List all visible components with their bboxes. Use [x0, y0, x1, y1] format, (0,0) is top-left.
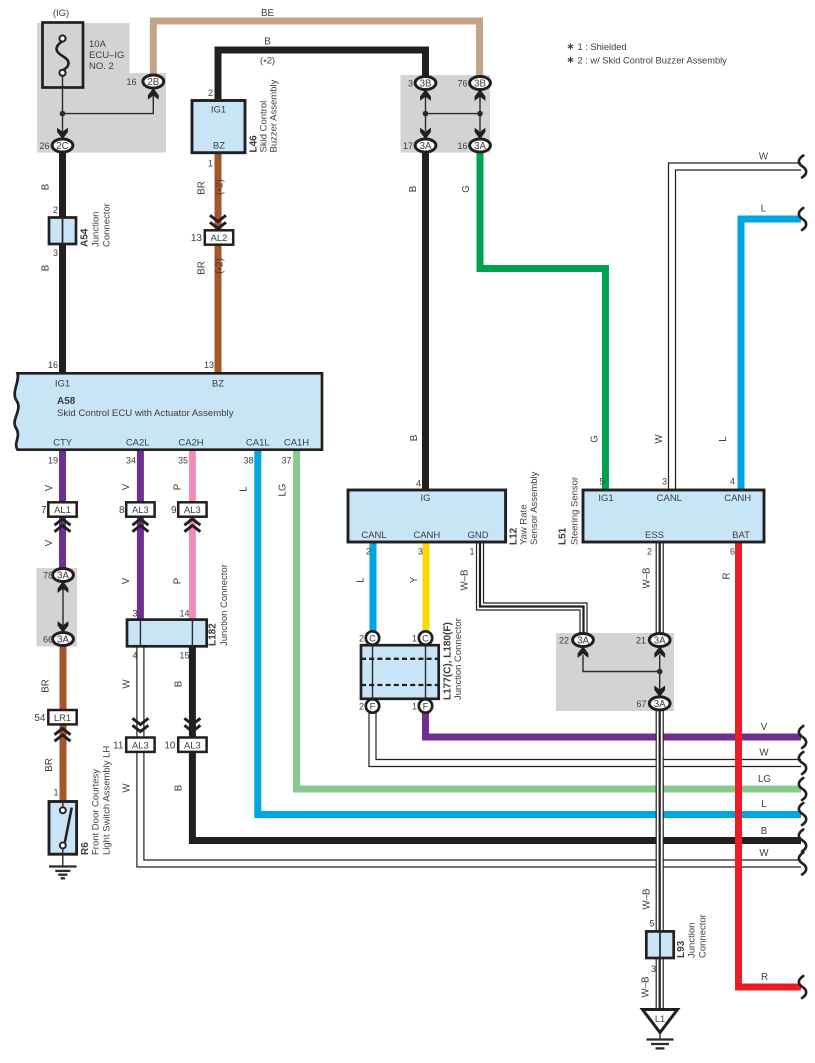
wire W-B L51 ESS to 21 3A: [656, 541, 664, 635]
fuse element symbol: [57, 35, 69, 76]
chevron arrows below AL3 pin9: [184, 519, 200, 532]
connector oval 3 3B: [415, 77, 436, 90]
svg-text:3A: 3A: [577, 635, 589, 646]
svg-text:2: 2: [366, 547, 371, 557]
svg-text:66: 66: [43, 635, 53, 645]
svg-text:IG1: IG1: [598, 493, 613, 504]
svg-text:37: 37: [281, 456, 291, 466]
svg-text:6: 6: [730, 547, 735, 557]
svg-text:LG: LG: [758, 774, 771, 785]
svg-text:3A: 3A: [57, 570, 69, 581]
break symbol LG: [799, 778, 806, 800]
svg-text:W: W: [654, 434, 665, 444]
wire BE fuse 2B to 76 3B: [153, 21, 479, 76]
svg-text:P: P: [173, 578, 184, 584]
connector AL3 pin 11: [113, 738, 154, 752]
svg-text:L: L: [239, 486, 250, 492]
arrow into 78 3A: [58, 581, 69, 593]
svg-text:34: 34: [126, 456, 136, 466]
svg-text:CANL: CANL: [657, 493, 682, 504]
svg-text:10A: 10A: [89, 39, 107, 50]
svg-text:3B: 3B: [474, 78, 486, 89]
svg-text:4: 4: [416, 479, 421, 489]
chevron arrows below LR1: [55, 729, 71, 742]
svg-text:1: 1: [412, 634, 417, 644]
chevron arrows above AL2: [210, 215, 226, 228]
svg-text:2: 2: [647, 547, 652, 557]
svg-text:AL1: AL1: [54, 504, 71, 515]
svg-text:BAT: BAT: [732, 530, 750, 541]
connector oval 21 3A: [649, 634, 670, 647]
svg-text:(*2): (*2): [215, 258, 228, 274]
wire G 16 3A to L51 IG1: [480, 150, 606, 490]
wire W L182 via AL3 to right edge: [140, 645, 801, 864]
svg-text:4: 4: [730, 477, 735, 487]
wire B 17 3A to L12 IG: [422, 150, 429, 490]
break symbol L: [799, 803, 806, 825]
svg-text:16: 16: [48, 360, 58, 370]
svg-text:AL3: AL3: [132, 739, 149, 750]
svg-text:(IG): (IG): [53, 8, 69, 19]
break symbol V: [799, 726, 806, 748]
connector oval 17 3A: [415, 139, 436, 152]
svg-text:R: R: [722, 573, 733, 580]
svg-text:BZ: BZ: [213, 141, 225, 152]
svg-text:3: 3: [132, 609, 137, 619]
fuse box ECU-IG NO.2: [43, 23, 84, 88]
connector oval 26 2C: [52, 139, 73, 152]
connector circle 2 F: [366, 699, 379, 712]
shield ground triangle L1: [643, 1010, 678, 1033]
shaded area fuse block: [37, 23, 166, 153]
svg-text:13: 13: [204, 360, 214, 370]
svg-text:3A: 3A: [654, 635, 666, 646]
shaded area connector 3A right: [556, 633, 674, 711]
svg-text:Junction: Junction: [687, 923, 698, 958]
wire W L51 CANL to right edge: [672, 167, 801, 492]
wire BR 66 3A to R6: [60, 644, 67, 802]
wire Y L12 CANH to 1 C: [423, 541, 430, 635]
svg-text:AL3: AL3: [184, 504, 201, 515]
junction dot fuse branch: [60, 111, 66, 117]
svg-text:22: 22: [559, 636, 569, 646]
svg-text:L51: L51: [558, 527, 569, 545]
svg-text:16: 16: [457, 141, 467, 151]
break symbol W top: [799, 156, 806, 178]
svg-text:W: W: [122, 783, 133, 793]
connector oval 22 3A: [573, 634, 594, 647]
svg-text:Junction Connector: Junction Connector: [219, 564, 230, 646]
svg-text:67: 67: [636, 699, 646, 709]
box R6 front door courtesy light switch: [49, 802, 77, 855]
connector AL3 pin 10: [164, 738, 206, 752]
svg-text:L: L: [761, 799, 767, 810]
svg-text:1: 1: [412, 702, 417, 712]
svg-text:B: B: [409, 435, 420, 441]
svg-text:1 : Shielded: 1 : Shielded: [578, 42, 627, 52]
svg-text:3A: 3A: [474, 141, 486, 152]
svg-text:BE: BE: [261, 8, 274, 19]
svg-text:2B: 2B: [147, 77, 159, 88]
chevron arrows above AL3 pin10: [184, 718, 200, 731]
svg-text:L177(C), L180(F): L177(C), L180(F): [443, 622, 454, 700]
connector AL2: [191, 230, 233, 244]
chevron arrows below AL1: [55, 519, 71, 532]
break symbol W mid: [799, 752, 806, 774]
junction dot 3B-3A right: [477, 111, 483, 117]
break symbol W bottom: [799, 853, 806, 875]
svg-text:F: F: [423, 701, 429, 711]
wire BR L46 BZ to A58 BZ: [215, 154, 222, 372]
wire V 1 F to right edge: [426, 709, 802, 737]
svg-text:54: 54: [34, 713, 46, 724]
svg-text:2: 2: [208, 88, 213, 98]
note star 1: [568, 43, 573, 49]
svg-text:BR: BR: [44, 758, 55, 771]
svg-text:W: W: [759, 848, 769, 859]
arrow into 22 3A: [578, 646, 589, 658]
connector AL3 pin 8: [119, 502, 155, 516]
svg-text:3A: 3A: [420, 141, 432, 152]
svg-text:CA1H: CA1H: [284, 438, 309, 449]
wire fuse branch to 2B: [63, 93, 154, 114]
box L177/L180 junction connector: [361, 645, 439, 699]
svg-text:A54: A54: [80, 228, 91, 247]
svg-text:2 : w/ Skid Control Buzzer Ass: 2 : w/ Skid Control Buzzer Assembly: [578, 56, 728, 66]
wire W-B 67 3A to L1 ground: [656, 708, 664, 1010]
break symbol L top: [799, 208, 806, 230]
svg-text:Steering Sensor: Steering Sensor: [570, 477, 581, 545]
svg-text:L93: L93: [676, 940, 687, 958]
connector oval 66 3A: [53, 633, 74, 646]
svg-text:B: B: [408, 186, 419, 192]
box L12 yaw rate sensor assembly: [348, 490, 506, 542]
svg-text:78: 78: [43, 571, 53, 581]
svg-text:1: 1: [53, 788, 58, 798]
svg-text:R: R: [761, 972, 768, 983]
svg-text:BR: BR: [197, 181, 208, 194]
svg-text:BZ: BZ: [212, 379, 224, 390]
connector circle 1 C: [419, 631, 432, 644]
box L182 junction connector: [127, 620, 207, 647]
svg-text:CA1L: CA1L: [246, 438, 270, 449]
svg-text:17: 17: [403, 141, 413, 151]
svg-text:7: 7: [41, 505, 47, 516]
svg-text:35: 35: [178, 456, 188, 466]
svg-text:L1: L1: [655, 1014, 665, 1024]
connector oval 67 3A: [649, 697, 670, 710]
wire V A58 CA2L to L182: [137, 450, 144, 620]
svg-text:2C: 2C: [56, 141, 68, 152]
svg-text:CANL: CANL: [361, 530, 386, 541]
svg-text:21: 21: [636, 636, 646, 646]
svg-text:AL3: AL3: [132, 504, 149, 515]
svg-text:CA2L: CA2L: [126, 438, 150, 449]
svg-text:GND: GND: [467, 530, 488, 541]
wire 3B-3A right: [479, 96, 481, 131]
svg-text:G: G: [461, 185, 472, 193]
chevron arrows above AL3 pin11: [132, 718, 148, 731]
svg-text:R6: R6: [80, 842, 91, 855]
svg-text:IG1: IG1: [55, 379, 70, 390]
svg-text:W–B: W–B: [642, 568, 653, 589]
svg-text:CANH: CANH: [413, 530, 440, 541]
box L51 steering sensor: [583, 490, 764, 542]
svg-text:Yaw Rate: Yaw Rate: [519, 505, 530, 545]
wire L L51 CANH to right edge: [741, 219, 801, 491]
svg-text:B: B: [264, 37, 270, 48]
svg-text:BR: BR: [197, 261, 208, 274]
wire 78-66 3A: [62, 588, 64, 630]
svg-text:2: 2: [359, 634, 364, 644]
arrow into 17 3A: [420, 128, 431, 140]
svg-text:B: B: [174, 681, 185, 687]
svg-text:IG1: IG1: [211, 105, 226, 116]
svg-text:AL3: AL3: [184, 739, 201, 750]
svg-text:ESS: ESS: [645, 530, 664, 541]
svg-text:B: B: [41, 265, 52, 271]
svg-text:8: 8: [119, 505, 125, 516]
wire B L182 to right edge: [192, 647, 801, 841]
svg-text:Light Switch Assembly LH: Light Switch Assembly LH: [102, 746, 113, 855]
svg-text:AL2: AL2: [211, 232, 228, 243]
svg-text:15: 15: [179, 651, 189, 661]
svg-text:19: 19: [48, 456, 58, 466]
box A54 junction connector: [49, 218, 76, 245]
connector AL1: [41, 502, 77, 516]
svg-text:P: P: [173, 484, 184, 490]
break symbol B: [799, 830, 806, 852]
connector AL3 pin 9: [171, 502, 207, 516]
svg-text:B: B: [41, 184, 52, 190]
arrow into 67 3A: [654, 686, 665, 698]
svg-text:9: 9: [171, 505, 177, 516]
svg-text:3: 3: [53, 248, 58, 258]
arrow into 66 3A: [58, 621, 69, 633]
svg-text:L: L: [356, 577, 367, 583]
svg-text:Y: Y: [409, 576, 420, 583]
ground symbol R6: [49, 854, 77, 878]
svg-text:Junction: Junction: [91, 212, 102, 247]
svg-text:B: B: [174, 785, 185, 791]
wire 3B-3A crossbar: [426, 113, 481, 115]
box L46 skid control buzzer assembly: [192, 101, 245, 153]
svg-text:V: V: [761, 722, 768, 733]
wire V A58 CTY to 78 3A: [59, 450, 66, 571]
connector oval 16 2B: [143, 75, 164, 88]
svg-text:10: 10: [164, 740, 176, 751]
connector oval 16 3A: [470, 139, 491, 152]
svg-text:5: 5: [649, 919, 654, 929]
svg-text:2: 2: [53, 205, 58, 215]
svg-text:Skid Control ECU with Actuator: Skid Control ECU with Actuator Assembly: [57, 408, 234, 419]
svg-text:Connector: Connector: [102, 203, 113, 247]
svg-text:CANH: CANH: [724, 493, 751, 504]
svg-text:LR1: LR1: [54, 712, 71, 723]
arrow into 76 3B: [475, 89, 486, 101]
svg-text:(*2): (*2): [260, 55, 275, 68]
svg-text:W–B: W–B: [460, 570, 471, 591]
arrow into 3 3B: [420, 89, 431, 101]
wire R L51 BAT to right edge: [739, 541, 802, 987]
box L93 junction connector: [646, 931, 673, 958]
svg-text:Junction Connector: Junction Connector: [453, 618, 464, 700]
arrow into 16 3A: [475, 128, 486, 140]
svg-text:3A: 3A: [654, 699, 666, 710]
svg-text:F: F: [370, 701, 376, 711]
shaded area connector 3A left: [37, 568, 78, 647]
svg-text:13: 13: [191, 233, 203, 244]
junction dot 21-67: [657, 669, 663, 675]
svg-text:Connector: Connector: [698, 914, 709, 958]
box A58 skid control ECU: [15, 373, 322, 449]
svg-text:V: V: [121, 483, 132, 490]
connector LR1: [34, 710, 76, 724]
svg-text:V: V: [44, 484, 55, 491]
svg-text:W–B: W–B: [642, 889, 653, 910]
wire B 26 2C to A58 IG1: [59, 150, 66, 372]
wire 21-67 3A: [659, 655, 661, 694]
wire B L46 IG1 to 3 3B: [218, 50, 426, 99]
svg-text:L182: L182: [208, 623, 219, 646]
arrow into 2B: [148, 88, 159, 100]
wire 22 3A branch: [583, 655, 660, 672]
svg-text:3B: 3B: [420, 78, 432, 89]
svg-text:G: G: [590, 435, 601, 443]
svg-text:26: 26: [39, 141, 49, 151]
svg-text:3: 3: [651, 964, 656, 974]
svg-text:Front Door Courtesy: Front Door Courtesy: [91, 769, 102, 855]
svg-text:W–B: W–B: [641, 977, 652, 998]
wire W 2 F to right edge: [373, 709, 802, 763]
svg-text:L: L: [761, 204, 767, 215]
svg-text:76: 76: [457, 79, 467, 89]
ground symbol L1: [647, 1033, 674, 1049]
svg-text:CTY: CTY: [53, 438, 73, 449]
svg-text:C: C: [422, 633, 429, 643]
svg-text:14: 14: [179, 609, 189, 619]
svg-text:W: W: [759, 748, 769, 759]
svg-text:Sensor Assembly: Sensor Assembly: [529, 471, 540, 545]
svg-text:LG: LG: [278, 484, 289, 497]
arrow into 2C: [57, 128, 68, 140]
wire P A58 CA2H to L182: [189, 450, 196, 620]
svg-text:3: 3: [662, 477, 667, 487]
break symbol R: [799, 976, 806, 998]
wire fuse to 2C: [62, 74, 64, 135]
wire 3B-3A left: [425, 96, 427, 131]
svg-text:1: 1: [469, 547, 474, 557]
svg-text:ECU–IG: ECU–IG: [89, 50, 124, 61]
svg-text:IG: IG: [420, 493, 430, 504]
svg-text:C: C: [369, 633, 376, 643]
connector oval 78 3A: [53, 569, 74, 582]
svg-text:Buzzer Assembly: Buzzer Assembly: [269, 79, 280, 152]
svg-text:1: 1: [208, 159, 213, 169]
svg-text:16: 16: [126, 77, 136, 87]
svg-text:L: L: [718, 436, 729, 442]
svg-text:(*2): (*2): [215, 179, 228, 195]
svg-text:4: 4: [132, 651, 137, 661]
svg-text:W: W: [759, 152, 769, 163]
junction dot 3B-3A left: [423, 111, 429, 117]
svg-text:W: W: [122, 679, 133, 689]
wire W-B L12 GND to 22 3A: [480, 541, 584, 635]
arrow into 21 3A: [654, 646, 665, 658]
wire L L12 CANL to 2 C: [370, 541, 377, 635]
svg-text:V: V: [121, 577, 132, 584]
connector oval 76 3B: [470, 77, 491, 90]
svg-text:3: 3: [408, 79, 413, 89]
svg-text:3: 3: [418, 547, 423, 557]
svg-text:V: V: [44, 539, 55, 546]
svg-text:5: 5: [599, 477, 604, 487]
svg-text:BR: BR: [41, 679, 52, 692]
svg-text:A58: A58: [57, 396, 76, 407]
svg-text:2: 2: [359, 702, 364, 712]
connector circle 1 F: [419, 699, 432, 712]
chevron arrows below AL3 pin8: [132, 519, 148, 532]
svg-text:NO. 2: NO. 2: [89, 61, 114, 72]
svg-text:3A: 3A: [57, 634, 69, 645]
wire LG A58 CA1H to right edge: [297, 450, 801, 789]
connector circle 2 C: [366, 631, 379, 644]
note star 2: [568, 57, 573, 63]
shaded area connector 3B/3A: [401, 75, 491, 153]
svg-text:CA2H: CA2H: [178, 438, 203, 449]
wire L A58 CA1L to right edge: [258, 450, 801, 815]
svg-text:11: 11: [113, 740, 124, 751]
svg-text:38: 38: [243, 456, 253, 466]
svg-text:B: B: [761, 826, 767, 837]
